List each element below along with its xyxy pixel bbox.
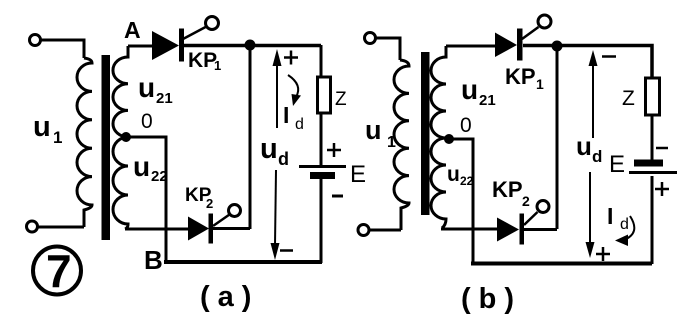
svg-text:A: A bbox=[124, 17, 141, 43]
input terminal bottom (a) bbox=[27, 221, 38, 232]
voltage arrow ud upper segment (b) bbox=[589, 50, 598, 138]
thyristor KP2 gate terminal (a) bbox=[229, 205, 241, 217]
label ud (a) bbox=[260, 133, 289, 169]
thyristor KP2 gate lead (a) bbox=[213, 215, 230, 227]
battery minus sign (a) bbox=[332, 195, 343, 198]
svg-text:2: 2 bbox=[206, 196, 213, 211]
wire node B through KP2 (a) bbox=[125, 228, 188, 231]
thyristor KP2 triangle (b) bbox=[497, 218, 519, 242]
resistor Z (b) bbox=[646, 78, 660, 115]
thyristor KP2 gate lead (b) bbox=[524, 212, 538, 225]
current arrow Id (a) bbox=[288, 75, 301, 106]
svg-text:u: u bbox=[365, 115, 382, 145]
svg-text:7: 7 bbox=[46, 245, 72, 297]
minus sign ud (b) bbox=[602, 55, 616, 58]
label u22 (a) bbox=[133, 151, 168, 185]
voltage arrow ud lower segment (b) bbox=[586, 172, 595, 258]
thyristor KP1 cathode bar (b) bbox=[517, 29, 523, 61]
wire primary bottom to terminal (b) bbox=[369, 229, 401, 232]
thyristor KP2 gate terminal (b) bbox=[537, 201, 549, 213]
svg-text:1: 1 bbox=[53, 128, 62, 147]
svg-text:Z: Z bbox=[335, 89, 347, 110]
svg-text:B: B bbox=[144, 245, 163, 275]
junction dot node (b) bbox=[552, 41, 563, 52]
label u1 (a) bbox=[33, 111, 62, 147]
wire battery to bottom rail (b) bbox=[651, 176, 654, 264]
wire node B through KP2 (b) bbox=[441, 228, 497, 231]
center tap node 0 dot (a) bbox=[121, 132, 131, 142]
bottom rail (b) bbox=[471, 262, 652, 266]
current arrow Id (b) bbox=[615, 216, 634, 246]
battery E negative plate (a) bbox=[310, 172, 335, 179]
svg-text:2: 2 bbox=[522, 193, 530, 209]
svg-text:I: I bbox=[607, 203, 613, 229]
primary winding u1 (a) bbox=[77, 58, 92, 227]
svg-text:1: 1 bbox=[536, 76, 544, 92]
wire Z to battery (a) bbox=[320, 113, 323, 165]
primary winding u1 (b) bbox=[394, 60, 409, 230]
thyristor KP1 gate lead (b) bbox=[522, 27, 539, 39]
wire top-left to primary (b) bbox=[375, 38, 400, 60]
bottom rail (a) bbox=[164, 260, 322, 264]
transformer core (a) bbox=[102, 55, 111, 240]
svg-text:d: d bbox=[620, 216, 629, 233]
svg-text:u: u bbox=[33, 111, 51, 143]
secondary winding u22 (b) bbox=[431, 138, 446, 228]
battery E positive plate (b) bbox=[629, 171, 677, 174]
center tap node 0 dot (b) bbox=[444, 134, 454, 144]
label ud (b) bbox=[576, 131, 602, 166]
thyristor KP1 gate terminal (a) bbox=[206, 17, 219, 30]
wire KP2 cathode to junction (b) bbox=[524, 228, 557, 231]
label KP2 (a) bbox=[185, 185, 213, 211]
svg-text:KP: KP bbox=[188, 49, 217, 72]
label KP1 (b) bbox=[505, 64, 544, 92]
thyristor KP1 gate lead (a) bbox=[183, 27, 207, 40]
battery minus sign (b) bbox=[656, 147, 668, 150]
label Id (b) bbox=[607, 203, 629, 233]
minus sign ud (a) bbox=[280, 249, 293, 252]
svg-text:u: u bbox=[133, 151, 150, 182]
battery E positive plate (a) bbox=[299, 165, 346, 168]
input terminal top (a) bbox=[30, 35, 41, 46]
center tap wire to bottom rail (a) bbox=[128, 137, 166, 262]
svg-text:(b): (b) bbox=[461, 283, 522, 315]
wire secondary top to KP1 (b) bbox=[446, 45, 495, 48]
wire top-left to primary (a) bbox=[40, 40, 84, 58]
svg-text:d: d bbox=[295, 116, 304, 133]
junction dot node (a) bbox=[245, 40, 256, 51]
label Id (a) bbox=[283, 102, 304, 133]
secondary winding u22 (a) bbox=[113, 137, 128, 229]
plus sign ud (a) bbox=[284, 51, 298, 65]
thyristor KP1 gate terminal (b) bbox=[538, 15, 551, 28]
svg-text:KP: KP bbox=[492, 177, 523, 202]
label u21 (a) bbox=[138, 72, 173, 107]
svg-text:KP: KP bbox=[505, 64, 536, 89]
secondary winding u21 (a) bbox=[113, 46, 128, 137]
thyristor KP2 triangle (a) bbox=[188, 217, 209, 241]
wire primary bottom to terminal (a) bbox=[38, 226, 84, 229]
svg-text:E: E bbox=[350, 161, 366, 188]
label u22 (b) bbox=[447, 163, 474, 188]
label KP1 (a) bbox=[188, 49, 221, 73]
wire battery to bottom rail (a) bbox=[320, 179, 323, 263]
svg-text:u: u bbox=[461, 74, 478, 105]
svg-text:u: u bbox=[576, 131, 592, 161]
battery E negative plate (b) bbox=[634, 160, 663, 167]
thyristor KP1 cathode bar (a) bbox=[179, 29, 184, 62]
voltage arrow ud lower segment (a) bbox=[271, 170, 280, 260]
wire KP1 cathode to corner (b) bbox=[523, 46, 652, 79]
battery plus sign (a) bbox=[327, 143, 341, 157]
svg-text:(a): (a) bbox=[200, 281, 259, 313]
svg-text:d: d bbox=[592, 147, 602, 166]
wire KP1 cathode to node (a) bbox=[184, 44, 321, 48]
svg-text:u: u bbox=[447, 163, 460, 186]
svg-text:0: 0 bbox=[460, 114, 472, 137]
label u21 (b) bbox=[461, 74, 496, 109]
thyristor KP2 cathode bar (b) bbox=[520, 214, 525, 245]
plus sign ud (b) bbox=[596, 247, 610, 261]
right branch wire down to Z (a) bbox=[320, 45, 323, 77]
cathode junction wire down (b) bbox=[556, 46, 559, 229]
svg-text:d: d bbox=[278, 149, 289, 169]
secondary winding u21 (b) bbox=[431, 46, 446, 138]
wire KP2 cathode to junction (a) bbox=[213, 227, 250, 230]
input terminal bottom (b) bbox=[358, 225, 369, 236]
node A wire (a) bbox=[128, 45, 152, 48]
label u1 (b) bbox=[365, 115, 396, 151]
svg-text:21: 21 bbox=[479, 92, 496, 109]
battery plus sign (b) bbox=[655, 182, 669, 196]
transformer core (b) bbox=[421, 52, 430, 215]
voltage arrow ud upper segment (a) bbox=[273, 49, 282, 128]
label KP2 (b) bbox=[492, 177, 530, 209]
thyristor KP2 cathode bar (a) bbox=[209, 214, 214, 244]
svg-text:E: E bbox=[609, 151, 625, 178]
thyristor KP1 triangle (b) bbox=[495, 33, 517, 58]
figure number circle 7 bbox=[33, 245, 81, 297]
svg-text:21: 21 bbox=[156, 90, 173, 107]
svg-text:u: u bbox=[138, 72, 155, 103]
svg-text:0: 0 bbox=[141, 110, 153, 133]
thyristor KP1 triangle (a) bbox=[152, 31, 179, 60]
cathode junction wire down (a) bbox=[249, 45, 252, 229]
input terminal top (b) bbox=[365, 33, 376, 44]
resistor Z (a) bbox=[318, 77, 331, 113]
center tap wire to bottom rail (b) bbox=[446, 139, 473, 263]
svg-text:1: 1 bbox=[387, 134, 396, 151]
svg-text:Z: Z bbox=[622, 87, 635, 110]
svg-text:1: 1 bbox=[214, 58, 221, 73]
svg-text:u: u bbox=[260, 133, 278, 165]
wire Z to battery (b) bbox=[651, 115, 654, 160]
svg-text:I: I bbox=[283, 102, 289, 128]
